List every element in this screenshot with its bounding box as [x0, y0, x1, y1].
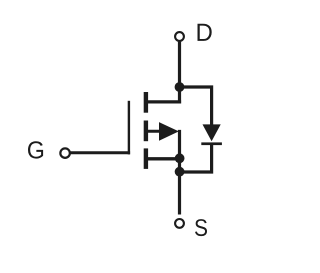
transistor Q1 channel segment top [144, 92, 148, 113]
diode D1 anode triangle [203, 124, 221, 141]
transistor Q1 drain stub [144, 100, 181, 103]
wire source vertical [178, 130, 181, 215]
transistor Q1 body arrow (points right: p-channel) [159, 122, 179, 141]
label S [195, 219, 207, 236]
label D [198, 24, 212, 41]
wire diode cathode to source junction [180, 145, 212, 173]
node drain junction [175, 82, 185, 92]
transistor Q1 source stub [144, 157, 180, 160]
terminal G (open circle) [60, 148, 70, 158]
terminal D (open circle) [175, 32, 184, 41]
transistor Q1 body stub [144, 130, 161, 133]
node source junction upper [175, 153, 185, 163]
transistor Q1 channel segment middle [144, 121, 148, 142]
transistor Q1 gate bar [128, 101, 130, 155]
wire drain junction to diode anode [180, 87, 212, 126]
node source junction lower [175, 167, 185, 177]
terminal S (open circle) [175, 219, 184, 228]
wire drain vertical [178, 42, 181, 104]
transistor Q1 channel segment bottom [144, 148, 148, 169]
wire gate horizontal [70, 151, 130, 154]
diode D1 cathode bar [201, 142, 222, 145]
label G [28, 141, 43, 158]
